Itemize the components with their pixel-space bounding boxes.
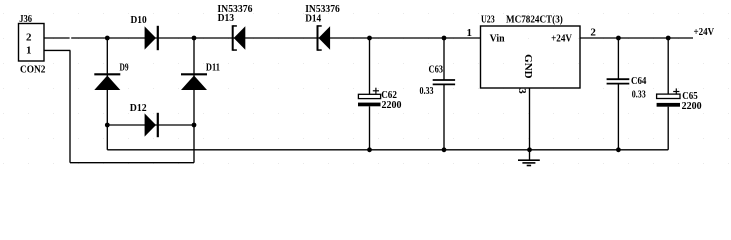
label C63 — [429, 63, 444, 75]
label IN53376 for D13 — [217, 3, 253, 15]
D12 wire — [107, 124, 194, 126]
capacitor C65 top wire — [667, 38, 669, 94]
svg-text:J36: J36 — [19, 13, 32, 25]
junction C64 rail — [616, 147, 621, 152]
connector J36 box — [19, 24, 45, 62]
junction C63 rail — [442, 147, 447, 152]
diode D9 — [94, 74, 120, 90]
label D14 — [305, 13, 321, 25]
svg-text:GND: GND — [522, 54, 534, 79]
svg-text:D13: D13 — [218, 12, 235, 24]
svg-text:+24V: +24V — [694, 26, 715, 38]
ground stub — [529, 150, 531, 160]
label D10 — [131, 14, 148, 26]
pin 2 stub wire — [44, 37, 70, 39]
pin 1 stub wire — [44, 49, 70, 51]
bottom wire — [70, 162, 194, 164]
junction at C65 top — [666, 36, 671, 41]
pin name GND rotated — [522, 54, 534, 79]
capacitor C65 negative plate — [657, 103, 680, 107]
label IN53376 for D14 — [305, 3, 340, 15]
ground rail drop — [106, 125, 108, 150]
output wire — [580, 37, 693, 39]
label CON2 — [20, 64, 46, 76]
pin 1 label — [467, 27, 473, 39]
pin 2 label — [590, 26, 596, 38]
pin 1 number — [26, 44, 32, 56]
svg-text:0.33: 0.33 — [420, 85, 434, 97]
capacitor C63 top wire — [443, 38, 445, 80]
svg-text:1: 1 — [26, 44, 32, 56]
right vertical wire to bridge — [193, 125, 195, 163]
junction at C62 top — [367, 36, 372, 41]
svg-text:2200: 2200 — [382, 99, 402, 111]
capacitor C62 negative plate — [358, 103, 381, 107]
capacitor C63 bottom wire — [443, 84, 445, 149]
svg-text:U23: U23 — [481, 14, 495, 26]
junction at C64 top — [616, 36, 621, 41]
capacitor C64 plates — [607, 79, 630, 83]
svg-text:Vin: Vin — [490, 33, 505, 45]
label D9 — [120, 62, 129, 74]
label D11 — [206, 62, 220, 74]
pin 3 label rotated — [516, 88, 528, 94]
diode D14 — [318, 25, 331, 51]
left vertical wire — [69, 50, 71, 162]
ground rail — [107, 149, 668, 151]
capacitor C65 plus sign — [673, 88, 679, 94]
ground symbol — [518, 160, 540, 165]
capacitor C62 top wire — [369, 38, 371, 94]
capacitor C65 positive plate — [657, 94, 680, 98]
svg-text:2: 2 — [590, 26, 596, 38]
label 0.33 for C64 — [632, 88, 646, 100]
pin name Vin — [490, 33, 505, 45]
D11 branch wire — [193, 38, 195, 125]
op U23 box — [481, 26, 581, 88]
svg-text:MC7824CT(3): MC7824CT(3) — [506, 14, 563, 26]
top wire — [71, 37, 480, 39]
capacitor C65 bottom wire — [667, 107, 669, 150]
capacitor C62 plus sign — [373, 88, 379, 94]
capacitor C64 bottom wire — [617, 84, 619, 150]
label C65 — [682, 90, 698, 102]
capacitor C62 bottom wire — [369, 106, 371, 150]
pin 3 wire — [529, 88, 531, 150]
label D13 — [218, 12, 235, 24]
svg-text:0.33: 0.33 — [632, 88, 646, 100]
label C64 — [631, 75, 647, 87]
label C62 — [381, 89, 397, 101]
label MC7824CT(3) — [506, 14, 563, 26]
svg-text:D9: D9 — [120, 62, 129, 74]
pin name +24V — [551, 33, 572, 45]
svg-text:CON2: CON2 — [20, 64, 46, 76]
label D12 — [130, 102, 147, 114]
diode D12 — [145, 113, 158, 137]
label U23 — [481, 14, 495, 26]
svg-text:D11: D11 — [206, 62, 220, 74]
svg-text:3: 3 — [516, 88, 528, 94]
label 2200 for C62 — [382, 99, 402, 111]
diode D11 — [181, 74, 207, 90]
svg-text:D12: D12 — [130, 102, 147, 114]
svg-text:C63: C63 — [429, 63, 444, 75]
junction ground rail — [527, 147, 532, 152]
svg-text:+24V: +24V — [551, 33, 572, 45]
junction at D9 top — [105, 36, 110, 41]
diode D10 — [145, 26, 158, 50]
svg-text:C64: C64 — [631, 75, 647, 87]
svg-text:D14: D14 — [305, 13, 321, 25]
capacitor C63 plates — [433, 80, 455, 84]
D9 branch wire — [106, 38, 108, 125]
junction at D11 D12 — [192, 123, 197, 128]
junction at D11 top — [192, 36, 197, 41]
label +24V output — [694, 26, 715, 38]
label J36 — [19, 13, 32, 25]
capacitor C62 positive plate — [358, 94, 380, 98]
junction at D9 D12 — [105, 123, 110, 128]
svg-text:2: 2 — [26, 31, 32, 43]
svg-text:2200: 2200 — [682, 100, 702, 112]
junction at C63 top — [442, 36, 447, 41]
label 0.33 for C63 — [420, 85, 434, 97]
svg-text:1: 1 — [467, 27, 473, 39]
capacitor C64 top wire — [617, 38, 619, 79]
svg-text:D10: D10 — [131, 14, 148, 26]
junction C62 rail — [367, 147, 372, 152]
pin 2 number — [26, 31, 32, 43]
label 2200 for C65 — [682, 100, 702, 112]
diode D13 — [233, 25, 246, 51]
